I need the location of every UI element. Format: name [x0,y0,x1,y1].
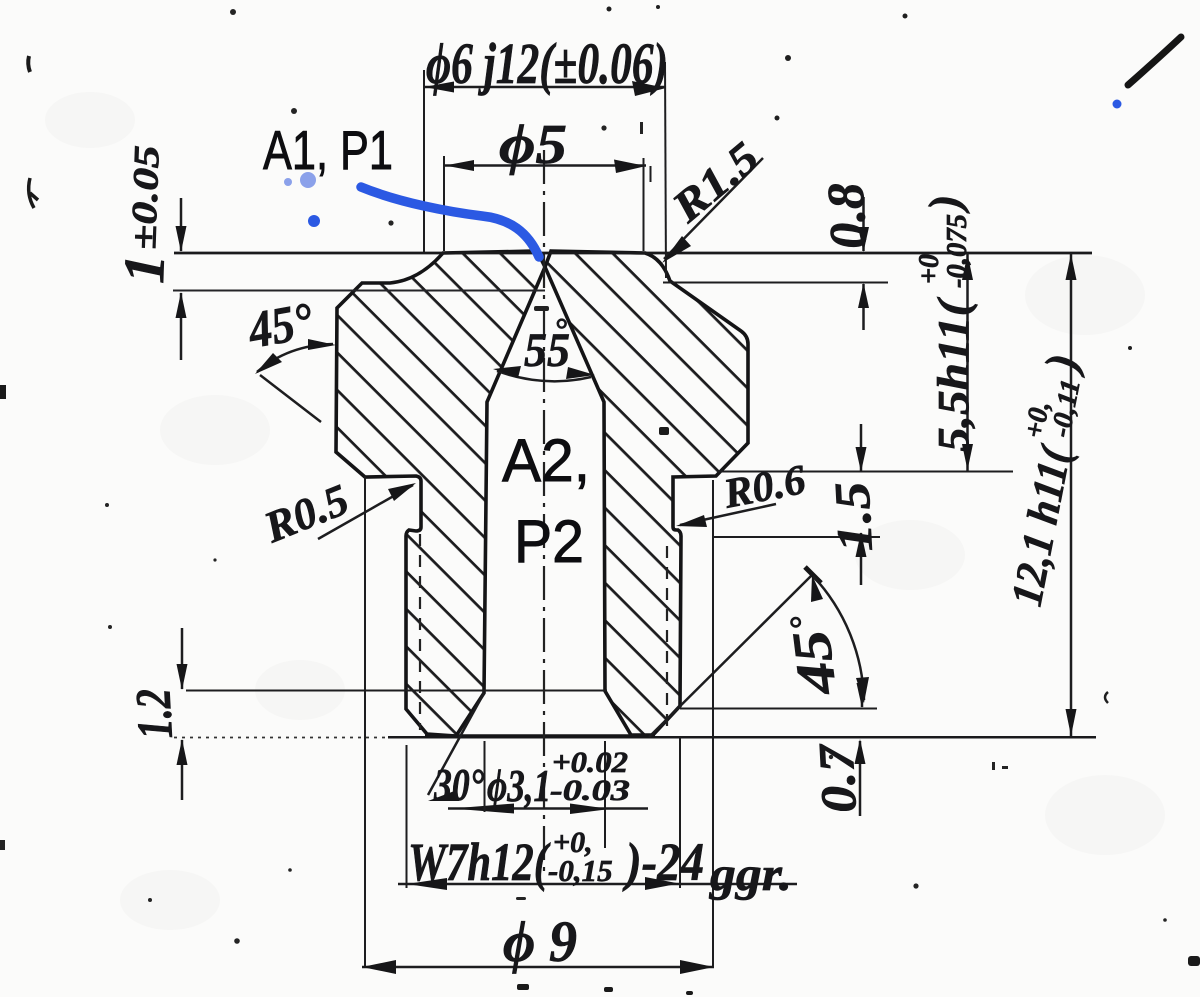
svg-text:-0.03: -0.03 [550,774,630,807]
R0.5 leader arrow [388,483,416,501]
phi9 dimension line [362,966,714,969]
0.8 lower arrow [858,283,869,308]
blue dot 2 [300,172,316,188]
svg-text:0.8: 0.8 [818,181,878,250]
bottom surface long line [174,737,390,739]
svg-text:P2: P2 [514,508,584,575]
5.5 bottom arrow [962,444,973,470]
phi3.1 right extension line [604,741,606,848]
1+-0.05 dimension line lower segment [180,293,183,360]
svg-text:±0.05: ±0.05 [123,145,167,250]
svg-text:30°: 30° [433,759,484,810]
svg-text:1: 1 [111,253,177,284]
55deg left arrowhead [493,366,521,378]
text 12.1 h11 [987,349,1098,610]
text 0.7 [807,741,867,814]
1.5 dimension lower segment [860,533,863,585]
left edge tick upper [28,56,30,72]
W7 left extension line [406,745,408,888]
svg-text:A2,: A2, [502,427,590,494]
svg-text:5,5h11(: 5,5h11( [929,296,978,452]
part cross-section right half (hatched) [545,251,748,735]
phi6 dimension line [424,86,665,89]
0.8 dimension line upper segment [862,197,865,251]
phi5 left extension line [443,156,445,251]
phi9 right extension line [712,480,714,966]
phi6 right extension line [665,62,666,278]
blue marker curve [361,187,539,257]
svg-text:-0,075: -0,075 [942,214,973,288]
svg-text:ϕ6 j12(±0.06): ϕ6 j12(±0.06) [426,31,668,96]
blue dot top right [1113,100,1122,109]
1.2 upper reference line [186,690,607,692]
faint scan smudges [45,92,1165,930]
svg-text:)-24: )-24 [622,832,704,892]
svg-text:0.7: 0.7 [807,741,867,814]
0.8 lower reference line (right) [663,282,888,284]
top edge specks [607,5,1133,350]
R0.5 leader line [318,485,413,539]
1.2 dimension line upper segment [181,628,184,689]
R0.6 leader arrow [676,515,707,527]
part cross-section left half (hatched) [336,251,545,736]
tick right of phi5 arrow [650,166,652,182]
svg-text:°: ° [554,311,567,347]
1+-0.05 dimension line upper segment [180,198,183,251]
12.1 bottom arrow [1066,709,1077,736]
flange underside extension (5.5 bottom / 1.5 top) [718,471,1013,473]
svg-text:A1, P1: A1, P1 [263,119,393,181]
phi3.1 left extension line [484,741,486,812]
svg-text:-0,15: -0,15 [548,853,613,888]
svg-text:ggr.: ggr. [709,848,792,901]
top surface long line [174,252,1092,255]
R1.5 leader arrow [662,236,691,263]
text R1.5 [662,132,768,232]
30deg chamfer extension line [428,693,484,795]
svg-text:1.2: 1.2 [124,687,183,740]
0.7 upper arrow [857,683,868,708]
55deg right arrowhead [566,367,595,379]
1.5 upper arrow [856,447,867,472]
bottom edge marks [517,984,529,990]
top-right corner slash [1128,37,1181,85]
blue dot 1 [284,178,292,186]
1.2 upper arrow [177,664,188,690]
phi5 dimension line [443,164,646,167]
1.5 dimension upper segment [860,424,863,471]
text 0.8 [818,181,878,250]
text 45deg top-left [243,293,317,360]
text 5.5 h11 [914,195,978,452]
phi5 right extension line [643,158,645,251]
phi9 left arrow [362,960,396,974]
1+-0.05 lower arrow [176,292,187,318]
svg-text:ϕ3,1: ϕ3,1 [487,760,551,811]
1.5 lower arrow [856,532,867,557]
phi9 left extension line [364,476,366,966]
thread dashed line left [419,534,421,730]
W7 right arrow [645,877,679,890]
0.8 upper arrow [858,227,869,252]
ink smudge below apex [534,306,549,311]
R0.6 leader line [680,504,776,525]
W7 right extension line [679,737,681,888]
phi6 right arrow [632,81,666,96]
phi3.1 left arrow [452,804,514,814]
thread dashed line right [666,546,668,727]
1+-0.05 upper arrow [176,226,187,252]
W7 left arrow [407,878,447,890]
part bottom face thick [425,734,655,737]
W7 dimension line [398,883,797,886]
45deg bottom-right arc [813,576,864,700]
1.2 lower arrow [177,739,188,765]
text 1.2 [124,687,183,740]
centerline (vertical axis, dash-dot) [543,150,545,875]
apex reference line (1 +-0.05 lower) [173,290,545,292]
0.7 lower arrow [855,739,866,764]
text R0.6 [719,457,809,518]
left edge check mark [29,178,38,208]
text R0.5 [256,475,355,553]
5.5 dimension line [966,253,969,471]
45deg BR arc bottom arrowhead [856,677,869,703]
text 45deg bottom-right [779,611,848,699]
0.7 dimension upper segment [861,682,864,707]
R1.5 leader line [664,158,763,259]
45deg TL ray [260,375,321,422]
text 1.5 [823,481,883,554]
left edge blob [0,385,6,399]
svg-text:1.5: 1.5 [823,481,883,554]
5.5 top arrow [962,254,973,280]
ink speck in right flange hatch [659,427,669,435]
1.2 dimension line lower segment [181,740,184,800]
phi9 right arrow [680,960,714,974]
45deg BR arc top arrowhead [811,575,823,602]
45deg bottom-right ray [649,574,813,737]
svg-text:ϕ 9: ϕ 9 [503,909,577,974]
svg-text:45: 45 [781,627,848,699]
phi3.1 dimension line [448,807,648,810]
45deg TL arc right arrowhead [308,339,336,350]
right edge blob [1188,956,1200,966]
svg-text:W7h12(: W7h12( [408,832,551,892]
svg-text:45°: 45° [243,293,317,360]
phi3.1 right arrow [570,804,610,815]
45deg ray end bar [805,567,821,583]
svg-text:ϕ5: ϕ5 [499,114,567,176]
30deg leader arrowhead [428,790,459,801]
45deg TL arc left arrowhead [255,353,282,374]
phi5 left arrow [445,160,474,171]
text 1 +-0.05 [111,144,181,284]
45deg top-left arc [257,344,333,372]
12.1 dimension line [1070,253,1073,736]
0.8 dimension line lower segment [862,284,865,330]
0.7 upper reference line [680,708,877,710]
phi6 left arrow [424,82,454,93]
right squiggle mark [1105,692,1108,703]
phi6 left extension line [423,70,425,252]
12.1 top arrow [1066,254,1077,280]
1.5 lower reference line [712,536,880,538]
blue dot 3 [308,215,320,227]
svg-text:+0: +0 [914,254,945,284]
phi5 right arrow [614,160,646,174]
55deg arc [497,371,591,381]
0.7 dimension lower segment [859,741,862,816]
